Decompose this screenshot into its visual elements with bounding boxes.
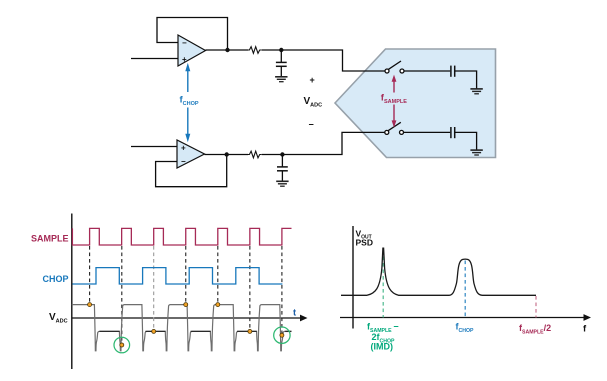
svg-text:CHOP: CHOP	[42, 274, 68, 284]
svg-text:−: −	[182, 39, 187, 48]
resistor R2	[248, 151, 261, 158]
node: U2 output junction	[225, 152, 229, 156]
node: C1 junction	[279, 48, 283, 52]
switch S2 (bottom sampling switch)	[385, 122, 404, 134]
svg-text:+: +	[182, 55, 187, 64]
wire: C4 to ground	[455, 132, 477, 150]
wire: S1 to C3	[404, 70, 450, 72]
sampling instant dot at x=89.6	[88, 303, 92, 307]
waveform SAMPLE	[72, 228, 291, 245]
svg-text:+: +	[181, 144, 186, 153]
PSD panel: f axis	[340, 317, 587, 319]
ground: C4	[470, 150, 482, 155]
dashed sample line x=153.7	[153, 246, 155, 330]
dashed line at f_SAMPLE/2	[535, 296, 537, 318]
f_SAMPLE arrows (double headed)	[392, 75, 397, 128]
highlight circle (IMD sample 1)	[114, 337, 130, 353]
dashed sample line x=281.9	[281, 246, 283, 334]
sampling instant dot at x=153.7	[152, 329, 156, 333]
node: C2 junction	[280, 152, 284, 156]
svg-text:PSD: PSD	[356, 238, 373, 248]
sampling instant dot at x=121.8	[120, 343, 124, 347]
dashed line at f_SAMPLE-2f_CHOP	[382, 250, 384, 318]
op-amp U2	[177, 140, 205, 168]
dashed sample line x=121.8	[121, 246, 123, 343]
ADC block	[335, 49, 496, 158]
capacitor C4	[451, 127, 455, 138]
resistor R1	[248, 47, 261, 54]
node: U1 output junction	[225, 48, 229, 52]
wire: U1 + input	[131, 58, 178, 60]
wire: C3 to ground	[455, 71, 477, 89]
highlight circle (IMD sample 2)	[274, 327, 290, 343]
capacitor C2	[281, 155, 283, 167]
sampling instant dot at x=185.75	[184, 303, 188, 307]
waveform CHOP	[72, 268, 282, 284]
ground: C3	[470, 89, 482, 94]
waveform V_ADC low segments	[100, 330, 120, 332]
svg-text:−: −	[181, 157, 186, 166]
ground: C1	[275, 77, 287, 82]
wire: R2 to ADC jog	[262, 132, 387, 154]
op-amp U1	[178, 35, 206, 66]
sampling instant dot at x=217.8	[216, 303, 220, 307]
waveform V_ADC	[72, 305, 292, 351]
wire: R1 to ADC jog	[262, 50, 387, 71]
capacitor C1	[280, 50, 282, 62]
svg-text:SAMPLE: SAMPLE	[31, 234, 69, 244]
wire: U1 output to resistor	[206, 49, 249, 51]
wire: U2 + input	[131, 146, 177, 148]
wire: U2 feedback loop	[156, 155, 227, 187]
wire: U2 output to resistor	[205, 154, 249, 156]
ground: C2	[276, 181, 288, 186]
dashed line at f_CHOP	[464, 261, 466, 318]
svg-text:−: −	[309, 120, 314, 130]
timing panel: t axis	[72, 317, 303, 319]
sampling instant dot at x=249.85	[248, 329, 252, 333]
svg-text:+: +	[310, 75, 315, 85]
svg-text:(IMD): (IMD)	[371, 342, 394, 352]
PSD panel: vertical axis	[352, 226, 354, 329]
PSD curve	[341, 248, 536, 295]
dashed sample line x=217.8	[217, 246, 219, 303]
timing panel: vertical axis	[71, 214, 73, 370]
dashed sample line x=249.85	[249, 246, 251, 330]
capacitor C3	[451, 66, 455, 77]
wire: S2 to C4	[403, 131, 450, 133]
dashed sample line x=185.75	[185, 246, 187, 303]
dashed sample line x=89.6	[89, 246, 91, 303]
f_CHOP arrow (double headed)	[185, 63, 190, 142]
switch S1 (top sampling switch)	[385, 61, 404, 73]
wire: U1 feedback loop	[157, 18, 228, 51]
sampling instant dot at x=281.9	[280, 333, 284, 337]
